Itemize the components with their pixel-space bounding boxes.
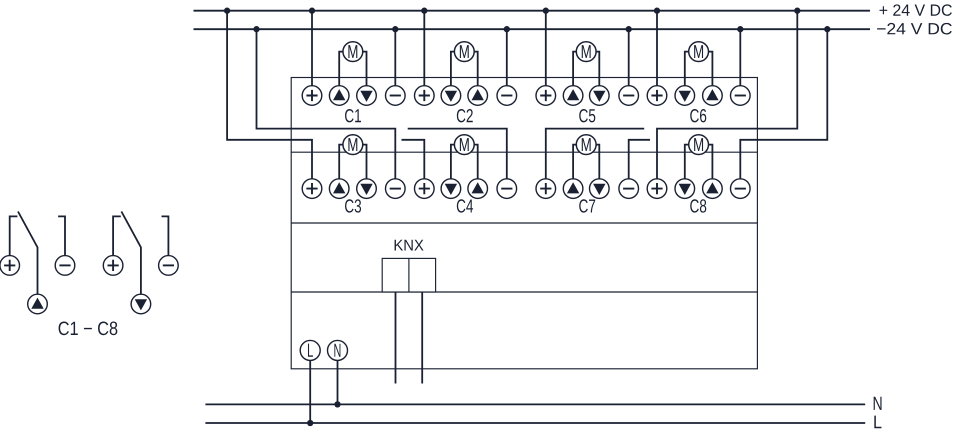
label C1 - C8 xyxy=(59,322,118,336)
wire C1 minus drop xyxy=(394,29,396,85)
mains rail N xyxy=(205,403,865,405)
terminal C7 down xyxy=(590,179,610,199)
terminal C7 plus xyxy=(536,179,556,199)
terminal C5 plus xyxy=(536,86,556,106)
motor M-C4 legs xyxy=(451,145,478,179)
junction dot C2 minus on -24V rail xyxy=(504,26,510,32)
terminal C5 up xyxy=(563,86,583,106)
motor M-C6 xyxy=(689,42,709,62)
terminal C8 minus xyxy=(731,179,751,199)
power rail -24V DC xyxy=(194,28,871,30)
terminal C4 down xyxy=(441,179,461,199)
label KNX xyxy=(395,240,424,251)
switch S2 plus lead xyxy=(113,216,121,255)
terminal C4 plus xyxy=(415,179,435,199)
terminal C6 down xyxy=(675,86,695,106)
switch S2 minus lead xyxy=(162,216,169,255)
label N xyxy=(874,397,882,410)
junction dot C1 plus on +24V rail xyxy=(309,8,315,14)
wire C5 minus drop xyxy=(628,29,630,85)
device divider 1 xyxy=(291,151,757,153)
terminal C1 plus xyxy=(302,86,322,106)
wire C7 minus stub xyxy=(629,140,650,179)
wire C3 minus feed from -24V rail xyxy=(257,29,396,179)
device divider 2 xyxy=(291,222,757,224)
KNX bus wire 1 xyxy=(395,292,397,384)
motor M-C4 xyxy=(454,135,474,155)
switch S1 minus lead xyxy=(58,216,65,255)
terminal C7 minus xyxy=(619,179,639,199)
terminal C3 plus xyxy=(302,179,322,199)
terminal N xyxy=(328,340,348,360)
junction dot C5 plus on +24V rail xyxy=(543,8,549,14)
motor M-C1 xyxy=(343,42,363,62)
motor M-C7 xyxy=(576,135,596,155)
wire C8 plus feed from +24V rail xyxy=(657,11,797,179)
motor M-C5 xyxy=(576,42,596,62)
terminal C1 down xyxy=(357,86,377,106)
switch S1 minus terminal xyxy=(55,256,75,276)
wire C8 minus feed from -24V rail xyxy=(740,29,827,179)
junction dot C6 plus on +24V rail xyxy=(654,8,660,14)
switch S1 blade xyxy=(18,212,38,295)
junction dot L on L rail xyxy=(307,420,313,426)
wire C6 plus drop xyxy=(656,11,658,86)
switch S2 minus terminal xyxy=(159,256,179,276)
junction dot C3 minus on -24V rail xyxy=(253,26,259,32)
terminal C4 up xyxy=(468,179,488,199)
terminal C7 up xyxy=(563,179,583,199)
switch S1 up output terminal xyxy=(28,294,48,314)
motor M-C7 legs xyxy=(573,145,599,179)
KNX block divider xyxy=(408,258,410,292)
motor M-C2 xyxy=(454,42,474,62)
terminal C4 minus xyxy=(497,179,517,199)
junction dot C3 plus on +24V rail xyxy=(224,8,230,14)
wire C6 minus drop xyxy=(739,29,741,85)
terminal C6 minus xyxy=(731,86,751,106)
KNX bus wire 2 xyxy=(421,292,423,384)
wire C2 minus drop xyxy=(506,29,508,85)
label L xyxy=(874,416,881,429)
label C3 xyxy=(345,199,361,212)
wire N drop xyxy=(337,360,339,404)
terminal C3 up xyxy=(329,179,349,199)
label C1 xyxy=(345,109,361,122)
terminal C5 minus xyxy=(619,86,639,106)
terminal C2 up xyxy=(468,86,488,106)
wire C4 minus stub xyxy=(408,129,507,179)
device divider 3 xyxy=(291,291,757,293)
motor M-C8 xyxy=(689,135,709,155)
label -24V DC xyxy=(877,23,952,35)
power rail +24V DC xyxy=(194,10,871,12)
wire C4 plus stub xyxy=(402,140,425,179)
motor M-C5 legs xyxy=(573,52,599,86)
terminal C8 up xyxy=(703,179,723,199)
motor M-C6 legs xyxy=(685,52,713,86)
terminal C8 down xyxy=(675,179,695,199)
mains rail L xyxy=(205,422,865,424)
terminal C6 plus xyxy=(647,86,667,106)
terminal C1 up xyxy=(329,86,349,106)
terminal L xyxy=(300,340,320,360)
terminal C2 down xyxy=(441,86,461,106)
KNX terminal block xyxy=(382,258,435,292)
junction dot C8 plus on +24V rail xyxy=(794,8,800,14)
device box U1 xyxy=(291,78,757,369)
switch S2 down output terminal xyxy=(131,294,151,314)
junction dot C5 minus on -24V rail xyxy=(626,26,632,32)
label C5 xyxy=(579,109,595,122)
motor M-C8 legs xyxy=(685,145,713,179)
motor M-C1 legs xyxy=(339,52,366,86)
label +24V DC xyxy=(880,4,952,16)
switch S1 plus terminal xyxy=(0,256,20,276)
terminal C2 plus xyxy=(415,86,435,106)
terminal C6 up xyxy=(703,86,723,106)
wire C5 plus drop xyxy=(545,11,547,86)
junction dot N on N rail xyxy=(334,401,340,407)
terminal C5 down xyxy=(590,86,610,106)
label C4 xyxy=(457,199,473,212)
switch S2 blade xyxy=(121,212,140,295)
junction dot C2 plus on +24V rail xyxy=(421,8,427,14)
terminal C1 minus xyxy=(386,86,406,106)
motor M-C3 xyxy=(343,135,363,155)
label C6 xyxy=(690,109,706,122)
wire C3 plus feed from +24V rail xyxy=(227,11,312,179)
junction dot C6 minus on -24V rail xyxy=(737,26,743,32)
motor M-C2 legs xyxy=(451,52,478,86)
switch S2 plus terminal xyxy=(103,256,123,276)
label C8 xyxy=(690,199,706,212)
label C2 xyxy=(457,109,473,122)
wire C7 plus stub xyxy=(546,129,644,179)
terminal C3 minus xyxy=(386,179,406,199)
wire L drop xyxy=(309,360,311,423)
label C7 xyxy=(579,199,595,212)
motor M-C3 legs xyxy=(339,145,366,179)
junction dot C1 minus on -24V rail xyxy=(392,26,398,32)
wire C2 plus drop xyxy=(423,11,425,86)
terminal C8 plus xyxy=(647,179,667,199)
wire C1 plus drop xyxy=(311,11,313,86)
terminal C3 down xyxy=(357,179,377,199)
junction dot C8 minus on -24V rail xyxy=(824,26,830,32)
switch S1 plus lead xyxy=(10,216,18,255)
terminal C2 minus xyxy=(497,86,517,106)
